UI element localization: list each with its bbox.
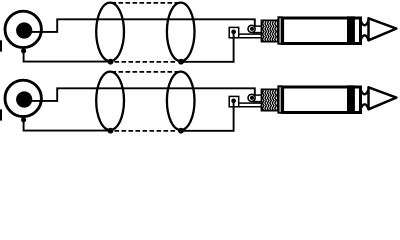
cable shield dashed top line: [112, 71, 181, 73]
RCA connector P2 body: [5, 80, 41, 116]
sleeve terminal solder dot: [231, 99, 236, 104]
tip terminal solder dot: [250, 96, 254, 100]
jack plug tip: [369, 18, 397, 40]
strain-relief spring coils hatch: [263, 90, 277, 110]
ground wire: RCA shield down and right: [24, 120, 110, 131]
channel 2: RCA-to-jack lead: [0, 72, 396, 134]
signal wire: RCA pin to step: [30, 19, 255, 32]
cable shield dashed bottom line: [115, 61, 178, 63]
strain-relief spring coils hatch: [263, 21, 277, 41]
RCA center pin (tip contact): [16, 22, 32, 38]
cable shield ellipse (left): [96, 3, 124, 61]
cable shield dashed bottom line: [115, 130, 178, 132]
jack plug neck waist (top): [361, 89, 369, 94]
RCA cable entry stub (left edge): [0, 40, 2, 51]
jack plug collar ring: [277, 16, 282, 44]
RCA cable entry stub (left edge): [0, 109, 2, 120]
sleeve terminal to plug wire: [239, 103, 262, 107]
RCA shield contact node: [21, 48, 26, 53]
sleeve terminal lug J2: [229, 96, 239, 106]
cable shield ellipse (left): [96, 72, 124, 130]
shield junction node (left ellipse): [108, 128, 114, 134]
jack plug strain-relief spring body: [262, 89, 278, 110]
ground wire: RCA shield down and right: [24, 51, 110, 62]
tip terminal lug: [248, 25, 255, 32]
RCA connector P1 body: [5, 11, 41, 47]
tip terminal solder dot: [250, 27, 254, 31]
shield junction node (right ellipse): [178, 59, 184, 65]
shield junction node (right ellipse): [178, 128, 184, 134]
shield junction node (left ellipse): [108, 59, 114, 65]
RCA shield contact node: [21, 117, 26, 122]
jack plug neck waist (bottom): [361, 35, 369, 40]
sleeve terminal lug J1: [229, 27, 239, 37]
signal wire: RCA pin to step: [30, 88, 255, 101]
jack plug neck waist (bottom): [361, 104, 369, 109]
jack plug neck waist (top): [361, 20, 369, 25]
jack plug collar ring: [277, 85, 282, 113]
jack plug tip: [369, 87, 397, 109]
ground wire: right ellipse to sleeve terminal: [181, 38, 234, 62]
cable shield ellipse (right): [167, 3, 195, 61]
ground wire: right ellipse to sleeve terminal: [181, 107, 234, 131]
plug rear bushing collar: [254, 26, 262, 32]
sleeve terminal solder dot: [231, 30, 236, 35]
cable shield ellipse (right): [167, 72, 195, 130]
RCA center pin (tip contact): [16, 91, 32, 107]
jack plug strain-relief spring body: [262, 20, 278, 41]
jack plug barrel (sleeve): [283, 87, 361, 113]
sleeve terminal lead-out wire: [233, 32, 235, 40]
plug rear bushing collar: [254, 95, 262, 102]
jack plug barrel (sleeve): [283, 18, 361, 44]
jack plug insulator ring (black band): [347, 85, 355, 113]
jack plug insulator ring (black band): [347, 16, 355, 44]
cable shield dashed top line: [112, 2, 181, 4]
sleeve terminal lead-out wire: [233, 101, 235, 109]
sleeve terminal to plug wire: [239, 34, 262, 38]
tip terminal lug: [248, 94, 255, 101]
channel 1: RCA-to-jack lead: [0, 3, 396, 65]
